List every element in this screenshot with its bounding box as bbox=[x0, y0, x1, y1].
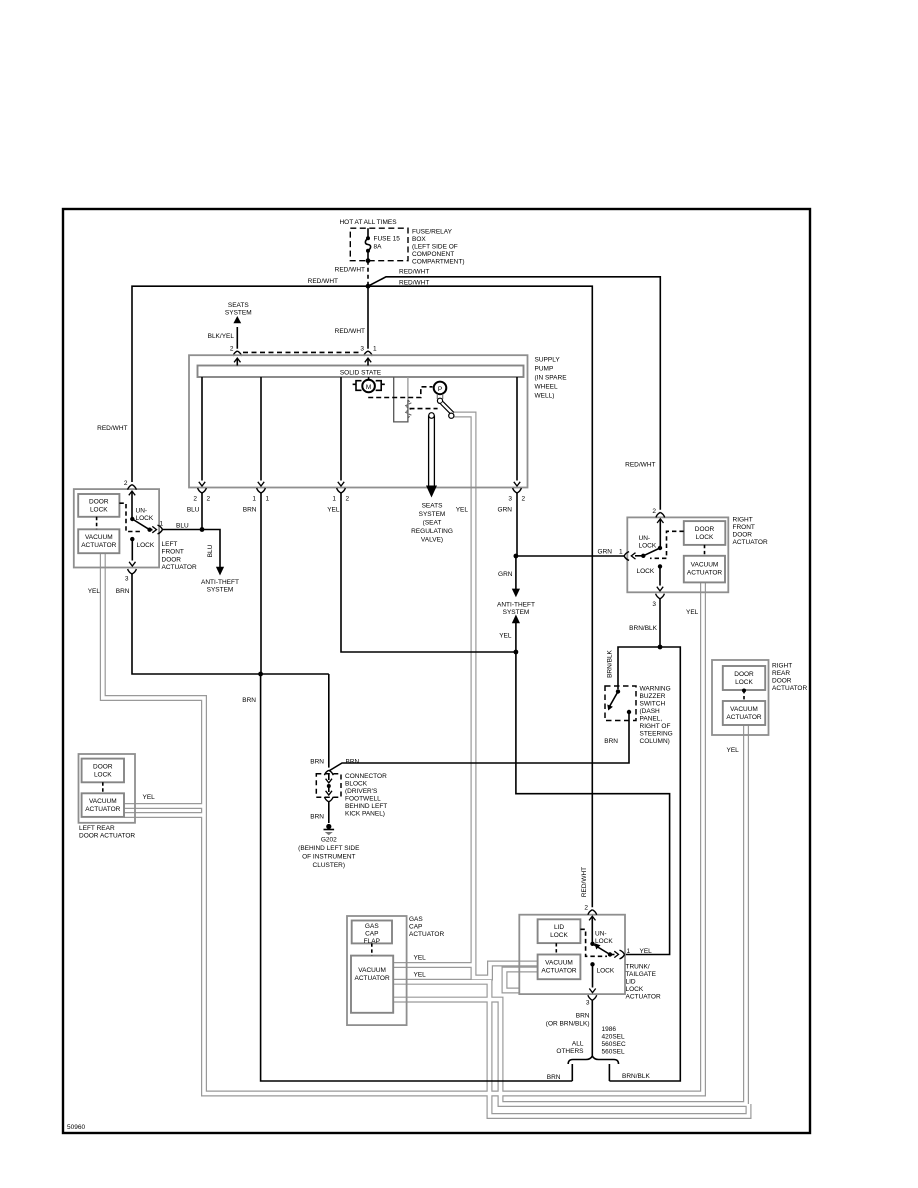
svg-text:WHEEL: WHEEL bbox=[535, 384, 559, 391]
wire BRN (OR BRN/BLK) from trunk pin 3 to brace bbox=[546, 1000, 651, 1081]
svg-text:2: 2 bbox=[584, 905, 588, 912]
svg-text:3: 3 bbox=[508, 496, 512, 503]
svg-text:BRN: BRN bbox=[242, 697, 256, 704]
svg-text:OF INSTRUMENT: OF INSTRUMENT bbox=[302, 854, 355, 861]
ground G202 bbox=[326, 824, 331, 829]
pin 3 bbox=[128, 569, 137, 574]
svg-text:UN-: UN- bbox=[595, 931, 607, 938]
svg-text:RIGHT OF: RIGHT OF bbox=[640, 723, 671, 730]
svg-text:BUZZER: BUZZER bbox=[640, 693, 666, 700]
wire RED/WHT lower right branch to trunk actuator bbox=[368, 286, 592, 907]
wire BRN/BLK from right front pin 3 bbox=[607, 598, 699, 1081]
svg-text:M: M bbox=[366, 384, 371, 391]
svg-text:ACTUATOR: ACTUATOR bbox=[85, 806, 120, 813]
svg-text:LOCK: LOCK bbox=[137, 542, 155, 549]
svg-text:RED/WHT: RED/WHT bbox=[399, 280, 429, 287]
svg-text:BRN/BLK: BRN/BLK bbox=[629, 625, 657, 632]
svg-text:FOOTWELL: FOOTWELL bbox=[345, 796, 381, 803]
svg-text:VACUUM: VACUUM bbox=[358, 967, 386, 974]
svg-text:2: 2 bbox=[230, 346, 234, 353]
dashed mech link bbox=[650, 531, 684, 558]
svg-text:RIGHT: RIGHT bbox=[733, 517, 753, 524]
svg-text:DOOR: DOOR bbox=[733, 532, 753, 539]
wire BRN bottom run from left front pin3 wire bbox=[261, 674, 573, 1081]
svg-text:WELL): WELL) bbox=[535, 393, 555, 400]
dashed mech link motor to pressure switch bbox=[368, 387, 432, 398]
wire BRN from left front pin 3 down to connector junction bbox=[88, 573, 329, 704]
hose outlines: left front actuator down, bottom run, up to right front actuator bbox=[103, 553, 703, 1093]
svg-text:1: 1 bbox=[266, 496, 270, 503]
svg-text:CLUSTER): CLUSTER) bbox=[313, 862, 346, 869]
svg-text:(IN SPARE: (IN SPARE bbox=[535, 375, 568, 382]
svg-text:LID: LID bbox=[626, 979, 636, 986]
wire RED/WHT down to supply pump pin 1 bbox=[367, 286, 369, 349]
svg-text:420SEL: 420SEL bbox=[602, 1034, 626, 1041]
svg-text:BRN: BRN bbox=[116, 588, 130, 595]
svg-text:YEL: YEL bbox=[640, 948, 653, 955]
dashed mech link bbox=[119, 503, 142, 531]
solid state bar bbox=[198, 366, 524, 378]
dashed link door lock to vacuum actuator bbox=[96, 517, 98, 530]
svg-text:(BEHIND LEFT SIDE: (BEHIND LEFT SIDE bbox=[298, 845, 360, 852]
svg-text:BRN: BRN bbox=[576, 1013, 590, 1020]
svg-text:ACTUATOR: ACTUATOR bbox=[355, 975, 390, 982]
svg-text:PANEL,: PANEL, bbox=[640, 716, 663, 723]
hose outlines: left rear actuator upper port bbox=[124, 803, 204, 809]
hose outlines: right rear actuator to bottom run to gas cap low port bbox=[392, 725, 746, 1104]
svg-text:COMPONENT: COMPONENT bbox=[412, 251, 454, 258]
svg-text:ACTUATOR: ACTUATOR bbox=[409, 931, 444, 938]
svg-text:LOCK: LOCK bbox=[735, 679, 753, 686]
svg-text:STEERING: STEERING bbox=[640, 731, 673, 738]
motor M symbol bbox=[353, 377, 385, 392]
svg-text:ACTUATOR: ACTUATOR bbox=[733, 539, 768, 546]
svg-text:LOCK: LOCK bbox=[595, 938, 613, 945]
svg-text:2: 2 bbox=[652, 508, 656, 515]
svg-text:3: 3 bbox=[125, 576, 129, 583]
svg-text:VACUUM: VACUUM bbox=[691, 562, 719, 569]
vacuum actuator box bbox=[78, 529, 119, 553]
wire YEL from pump down to anti-theft junction bbox=[327, 492, 535, 654]
svg-text:DOOR: DOOR bbox=[695, 526, 715, 533]
wire GRN from pump pin 3 to right front pin 1 and anti-theft bbox=[498, 492, 625, 597]
svg-text:ANTI-THEFT: ANTI-THEFT bbox=[497, 602, 535, 609]
svg-text:LOCK: LOCK bbox=[90, 507, 108, 514]
svg-text:TAILGATE: TAILGATE bbox=[626, 971, 657, 978]
svg-text:BLOCK: BLOCK bbox=[345, 781, 368, 788]
brace bbox=[568, 1056, 618, 1064]
svg-text:SYSTEM: SYSTEM bbox=[503, 609, 530, 616]
svg-text:ACTUATOR: ACTUATOR bbox=[162, 564, 197, 571]
svg-text:560SEL: 560SEL bbox=[602, 1049, 626, 1056]
svg-text:VACUUM: VACUUM bbox=[85, 534, 113, 541]
pin 3 bbox=[656, 594, 665, 599]
svg-text:LOCK: LOCK bbox=[696, 534, 714, 541]
svg-text:YEL: YEL bbox=[88, 588, 101, 595]
svg-text:BRN: BRN bbox=[310, 759, 324, 766]
svg-text:VACUUM: VACUUM bbox=[545, 960, 573, 967]
svg-text:GAS: GAS bbox=[409, 916, 423, 923]
svg-text:VALVE): VALVE) bbox=[421, 537, 443, 544]
svg-text:P: P bbox=[438, 386, 442, 393]
svg-text:BLK/YEL: BLK/YEL bbox=[208, 333, 235, 340]
svg-text:REGULATING: REGULATING bbox=[411, 528, 453, 535]
svg-text:YEL: YEL bbox=[327, 507, 340, 514]
hose outlines: trunk vacuum actuator lower port hook bbox=[505, 970, 538, 991]
actuator enclosure bbox=[74, 489, 159, 567]
wire RED/WHT left branch to left front door bbox=[132, 286, 368, 482]
svg-text:RED/WHT: RED/WHT bbox=[625, 462, 655, 469]
svg-text:ACTUATOR: ACTUATOR bbox=[772, 685, 807, 692]
svg-text:SWITCH: SWITCH bbox=[640, 701, 666, 708]
svg-text:(LEFT SIDE OF: (LEFT SIDE OF bbox=[412, 244, 458, 251]
svg-text:HOT AT ALL TIMES: HOT AT ALL TIMES bbox=[339, 219, 397, 226]
internal output lines with arrows to bottom pins bbox=[201, 377, 203, 481]
svg-text:2: 2 bbox=[207, 496, 211, 503]
svg-text:DOOR: DOOR bbox=[772, 678, 792, 685]
svg-text:DOOR: DOOR bbox=[93, 764, 113, 771]
svg-text:1: 1 bbox=[160, 521, 164, 528]
svg-text:DOOR: DOOR bbox=[89, 499, 109, 506]
svg-text:3: 3 bbox=[586, 1000, 590, 1007]
lock contact bbox=[590, 962, 594, 966]
svg-text:BLU: BLU bbox=[207, 544, 214, 557]
wire BRN to ground bbox=[328, 801, 330, 823]
svg-text:8A: 8A bbox=[374, 244, 383, 251]
pressure switch P bbox=[434, 382, 454, 419]
svg-text:ANTI-THEFT: ANTI-THEFT bbox=[201, 579, 239, 586]
svg-text:RED/WHT: RED/WHT bbox=[335, 267, 365, 274]
svg-text:DOOR ACTUATOR: DOOR ACTUATOR bbox=[79, 833, 135, 840]
svg-text:RED/WHT: RED/WHT bbox=[581, 867, 588, 897]
un-lock switch bbox=[659, 520, 661, 549]
un-lock switch bbox=[131, 492, 133, 519]
svg-text:CONNECTOR: CONNECTOR bbox=[345, 773, 387, 780]
door lock box bbox=[684, 521, 726, 545]
hose outlines: gas cap mid port to bottom right riser bbox=[392, 982, 748, 1116]
svg-text:560SEC: 560SEC bbox=[602, 1041, 627, 1048]
connector block dashed box bbox=[316, 774, 341, 798]
svg-text:SUPPLY: SUPPLY bbox=[535, 357, 561, 364]
svg-text:SYSTEM: SYSTEM bbox=[207, 587, 234, 594]
dashed link across supply pump top pins bbox=[243, 351, 362, 353]
svg-text:BLU: BLU bbox=[187, 507, 200, 514]
svg-text:(DASH: (DASH bbox=[640, 708, 661, 715]
svg-text:YEL: YEL bbox=[456, 507, 469, 514]
svg-text:LOCK: LOCK bbox=[626, 986, 644, 993]
door lock box bbox=[78, 494, 119, 517]
svg-text:YEL: YEL bbox=[143, 794, 156, 801]
svg-text:BRN: BRN bbox=[310, 814, 324, 821]
svg-text:1: 1 bbox=[619, 549, 623, 556]
svg-text:YEL: YEL bbox=[499, 633, 512, 640]
svg-text:1: 1 bbox=[373, 346, 377, 353]
svg-text:GAS: GAS bbox=[365, 923, 379, 930]
pin 2 top bbox=[588, 910, 597, 915]
svg-text:50960: 50960 bbox=[67, 1124, 85, 1131]
svg-text:SEATS: SEATS bbox=[228, 302, 249, 309]
svg-text:GRN: GRN bbox=[598, 549, 613, 556]
svg-text:DOOR: DOOR bbox=[734, 671, 754, 678]
svg-text:(SEAT: (SEAT bbox=[423, 520, 442, 527]
svg-text:LOCK: LOCK bbox=[94, 772, 112, 779]
svg-text:1986: 1986 bbox=[602, 1026, 617, 1033]
hose outlines: gas cap upper port to supply line bbox=[392, 962, 473, 968]
svg-text:RIGHT: RIGHT bbox=[772, 663, 792, 670]
svg-text:YEL: YEL bbox=[414, 972, 427, 979]
svg-text:FUSE 15: FUSE 15 bbox=[374, 236, 401, 243]
svg-text:UN-: UN- bbox=[136, 508, 148, 515]
hose outlines: left rear actuator lower port bbox=[124, 812, 204, 818]
svg-text:GRN: GRN bbox=[498, 571, 513, 578]
pin 2 bbox=[128, 485, 137, 490]
svg-text:KICK PANEL): KICK PANEL) bbox=[345, 811, 385, 818]
svg-text:SYSTEM: SYSTEM bbox=[225, 310, 252, 317]
svg-text:SEATS: SEATS bbox=[422, 503, 443, 510]
svg-text:1: 1 bbox=[332, 496, 336, 503]
svg-text:BRN: BRN bbox=[547, 1074, 561, 1081]
svg-text:FRONT: FRONT bbox=[162, 549, 184, 556]
wire BLU from pump pin 2 to left front pin 1 and anti-theft bbox=[163, 492, 239, 593]
svg-text:BRN/BLK: BRN/BLK bbox=[607, 649, 614, 677]
svg-text:2: 2 bbox=[124, 480, 128, 487]
lock contact bbox=[658, 564, 662, 568]
svg-text:BLU: BLU bbox=[176, 523, 189, 530]
hose cores (white centers) bbox=[103, 415, 749, 1117]
svg-text:SYSTEM: SYSTEM bbox=[419, 511, 446, 518]
svg-text:RED/WHT: RED/WHT bbox=[335, 328, 365, 335]
svg-text:TRUNK/: TRUNK/ bbox=[626, 964, 650, 971]
svg-text:COLUMN): COLUMN) bbox=[640, 738, 670, 745]
hose outlines: supply pump lever down with stair to trunk vacuum actuator upper port bbox=[451, 415, 538, 978]
svg-text:3: 3 bbox=[360, 346, 364, 353]
svg-text:2: 2 bbox=[193, 496, 197, 503]
svg-text:CAP: CAP bbox=[409, 924, 422, 931]
dashed mech link valve block to lever bbox=[410, 408, 438, 410]
node main power junction bbox=[366, 284, 371, 289]
dashed mech link bbox=[580, 929, 607, 956]
svg-text:PUMP: PUMP bbox=[535, 366, 554, 373]
svg-text:RED/WHT: RED/WHT bbox=[97, 425, 127, 432]
svg-text:ACTUATOR: ACTUATOR bbox=[81, 542, 116, 549]
pin 2 bbox=[656, 512, 665, 517]
svg-text:LEFT: LEFT bbox=[162, 541, 178, 548]
svg-text:OTHERS: OTHERS bbox=[556, 1048, 584, 1055]
svg-text:ACTUATOR: ACTUATOR bbox=[687, 570, 722, 577]
fuse F15 8A bbox=[365, 228, 370, 263]
svg-text:RED/WHT: RED/WHT bbox=[399, 269, 429, 276]
lock contact bbox=[130, 537, 134, 541]
svg-text:3: 3 bbox=[652, 601, 656, 608]
wire BRN from pump pin 1 down bbox=[243, 492, 261, 674]
svg-text:BRN: BRN bbox=[243, 507, 257, 514]
dashed link door lock to vacuum actuator bbox=[704, 545, 706, 556]
svg-text:ACTUATOR: ACTUATOR bbox=[541, 968, 576, 975]
svg-text:2: 2 bbox=[522, 496, 526, 503]
svg-text:(OR BRN/BLK): (OR BRN/BLK) bbox=[546, 1021, 590, 1028]
svg-text:ACTUATOR: ACTUATOR bbox=[726, 714, 761, 721]
svg-text:LOCK: LOCK bbox=[637, 568, 655, 575]
wire YEL continuing to trunk pin 1 bbox=[516, 652, 670, 955]
svg-text:YEL: YEL bbox=[727, 747, 740, 754]
svg-text:BEHIND LEFT: BEHIND LEFT bbox=[345, 803, 387, 810]
svg-text:FUSE/RELAY: FUSE/RELAY bbox=[412, 229, 453, 236]
svg-text:REAR: REAR bbox=[772, 670, 790, 677]
svg-text:BRN: BRN bbox=[604, 738, 618, 745]
supply pump enclosure bbox=[189, 355, 528, 487]
svg-text:SOLID STATE: SOLID STATE bbox=[340, 369, 382, 376]
wire BLK/YEL seats system feed bbox=[208, 302, 252, 353]
svg-text:LOCK: LOCK bbox=[550, 932, 568, 939]
page border frame bbox=[63, 209, 810, 1133]
svg-text:VACUUM: VACUUM bbox=[730, 706, 758, 713]
svg-text:FRONT: FRONT bbox=[733, 524, 755, 531]
svg-text:ALL: ALL bbox=[572, 1041, 584, 1048]
wire RED/WHT upper right branch to right front door bbox=[368, 277, 660, 510]
svg-text:YEL: YEL bbox=[686, 609, 699, 616]
svg-text:1: 1 bbox=[252, 496, 256, 503]
arrows from top pins into solid state bbox=[236, 359, 238, 366]
svg-text:BOX: BOX bbox=[412, 236, 426, 243]
pin 1 supply pump bbox=[364, 351, 373, 356]
svg-text:COMPARTMENT): COMPARTMENT) bbox=[412, 259, 464, 266]
pin 2 supply pump top bbox=[233, 351, 242, 356]
supply pump bottom pins bbox=[198, 488, 207, 493]
pin 3 bottom bbox=[588, 995, 597, 1000]
svg-text:YEL: YEL bbox=[414, 955, 427, 962]
svg-text:UN-: UN- bbox=[639, 535, 651, 542]
vacuum actuator box bbox=[684, 556, 725, 583]
svg-text:DOOR: DOOR bbox=[162, 557, 182, 564]
svg-text:2: 2 bbox=[346, 496, 350, 503]
fuse/relay box (dashed) bbox=[350, 228, 408, 261]
wire dashed fuse to junction bbox=[367, 261, 369, 286]
svg-text:LOCK: LOCK bbox=[597, 968, 615, 975]
pump valve block (gray) with zigzag bbox=[394, 377, 411, 422]
actuator enclosure bbox=[627, 517, 728, 592]
svg-text:RED/WHT: RED/WHT bbox=[308, 278, 338, 285]
svg-text:WARNING: WARNING bbox=[640, 686, 671, 693]
svg-text:VACUUM: VACUUM bbox=[89, 798, 117, 805]
svg-text:GRN: GRN bbox=[498, 507, 513, 514]
svg-text:LOCK: LOCK bbox=[639, 543, 657, 550]
svg-text:LOCK: LOCK bbox=[136, 515, 154, 522]
svg-text:CAP: CAP bbox=[365, 931, 378, 938]
svg-text:LEFT REAR: LEFT REAR bbox=[79, 825, 115, 832]
svg-text:ACTUATOR: ACTUATOR bbox=[626, 994, 661, 1001]
svg-text:LID: LID bbox=[554, 924, 564, 931]
svg-text:(DRIVER'S: (DRIVER'S bbox=[345, 788, 378, 795]
seats system input thick arrow bbox=[426, 413, 437, 498]
svg-text:G202: G202 bbox=[321, 837, 337, 844]
svg-text:BRN/BLK: BRN/BLK bbox=[622, 1073, 650, 1080]
svg-text:BRN: BRN bbox=[346, 759, 360, 766]
svg-text:1: 1 bbox=[627, 948, 631, 955]
